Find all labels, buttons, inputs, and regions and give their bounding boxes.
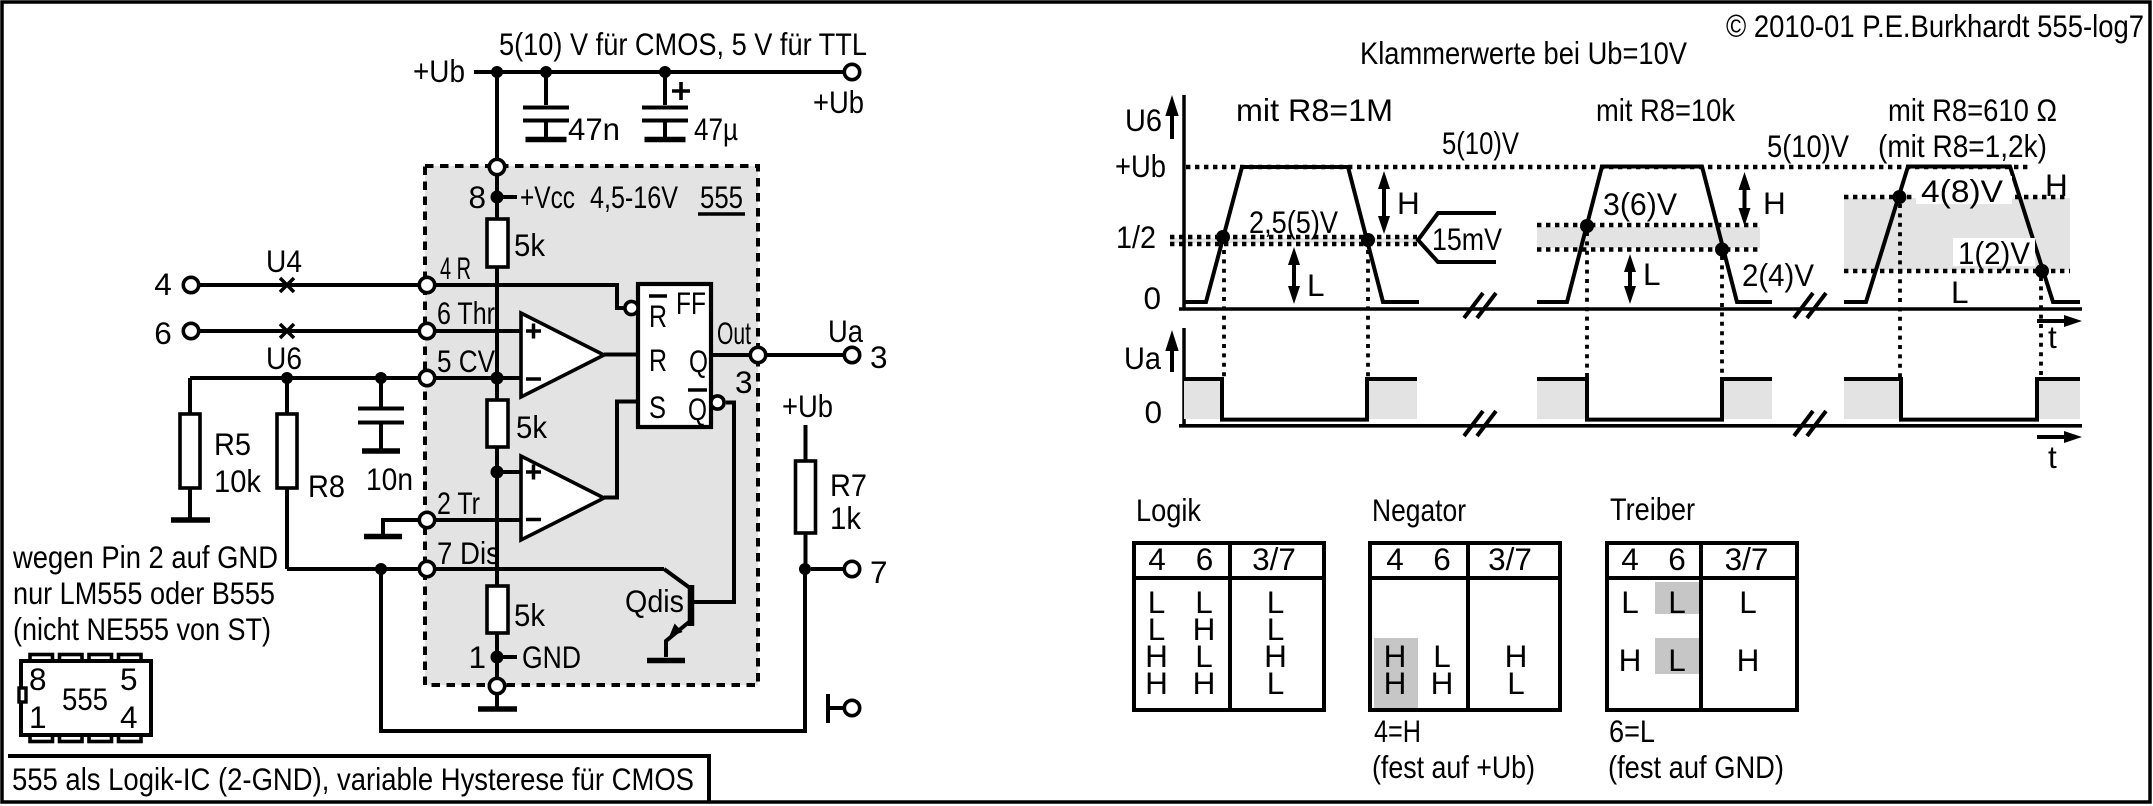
svg-text:L: L — [1307, 267, 1325, 303]
svg-text:S: S — [649, 389, 666, 425]
svg-text:6: 6 — [154, 315, 172, 351]
svg-text:3: 3 — [735, 364, 753, 400]
svg-text:1: 1 — [29, 699, 47, 735]
svg-text:47n: 47n — [568, 111, 620, 147]
svg-text:5k: 5k — [514, 227, 545, 263]
svg-text:Logik: Logik — [1136, 492, 1201, 528]
svg-text:5(10)V: 5(10)V — [1442, 125, 1519, 161]
svg-text:5k: 5k — [516, 409, 547, 445]
svg-text:3/7: 3/7 — [1488, 541, 1532, 577]
svg-text:R: R — [649, 342, 667, 378]
svg-text:15mV: 15mV — [1432, 221, 1502, 257]
svg-text:t: t — [2048, 439, 2057, 475]
svg-text:H: H — [1397, 185, 1420, 221]
svg-text:© 2010-01 P.E.Burkhardt 555-lo: © 2010-01 P.E.Burkhardt 555-log7 — [1726, 8, 2144, 44]
svg-text:U4: U4 — [266, 243, 302, 279]
svg-text:2(4)V: 2(4)V — [1742, 257, 1814, 293]
svg-text:5(10) V für CMOS, 5 V für TTL: 5(10) V für CMOS, 5 V für TTL — [499, 26, 867, 62]
svg-text:R5: R5 — [214, 426, 251, 462]
svg-text:Klammerwerte bei Ub=10V: Klammerwerte bei Ub=10V — [1360, 35, 1687, 71]
svg-text:+Ub: +Ub — [1115, 148, 1166, 184]
svg-text:H: H — [1145, 665, 1168, 701]
svg-text:4=H: 4=H — [1374, 713, 1421, 749]
svg-text:8: 8 — [29, 661, 47, 697]
svg-text:Ua: Ua — [828, 313, 863, 349]
svg-text:U6: U6 — [1125, 102, 1162, 138]
svg-text:mit R8=1M: mit R8=1M — [1236, 92, 1393, 128]
svg-text:2,5(5)V: 2,5(5)V — [1249, 204, 1338, 240]
svg-text:5 CV: 5 CV — [437, 343, 495, 379]
svg-text:1/2: 1/2 — [1116, 219, 1156, 255]
svg-text:mit R8=10k: mit R8=10k — [1596, 92, 1735, 128]
svg-text:nur LM555 oder B555: nur LM555 oder B555 — [13, 575, 275, 611]
svg-text:R: R — [649, 298, 667, 334]
svg-text:555: 555 — [700, 179, 743, 215]
svg-text:L: L — [1668, 642, 1686, 678]
svg-text:4: 4 — [1621, 541, 1639, 577]
svg-text:6: 6 — [1433, 541, 1451, 577]
svg-text:4: 4 — [120, 699, 138, 735]
svg-text:R7: R7 — [830, 467, 867, 503]
svg-text:3/7: 3/7 — [1725, 541, 1769, 577]
svg-text:10n: 10n — [366, 461, 413, 497]
svg-text:L: L — [1643, 256, 1661, 292]
svg-text:6=L: 6=L — [1609, 713, 1655, 749]
svg-text:0: 0 — [1143, 280, 1161, 316]
svg-text:GND: GND — [522, 639, 581, 675]
svg-text:L: L — [1951, 274, 1969, 310]
svg-text:(mit R8=1,2k): (mit R8=1,2k) — [1878, 128, 2047, 164]
svg-text:4 R: 4 R — [440, 250, 471, 286]
svg-text:+Ub: +Ub — [782, 388, 833, 424]
svg-text:Treiber: Treiber — [1610, 491, 1695, 527]
svg-text:H: H — [1737, 642, 1760, 678]
svg-text:3(6)V: 3(6)V — [1603, 186, 1677, 222]
svg-text:U6: U6 — [266, 340, 302, 376]
svg-text:H: H — [1431, 665, 1454, 701]
svg-text:H: H — [1384, 665, 1407, 701]
svg-text:8: 8 — [468, 179, 486, 215]
svg-text:1: 1 — [468, 639, 486, 675]
svg-text:4(8)V: 4(8)V — [1921, 173, 2003, 209]
svg-text:4,5-16V: 4,5-16V — [590, 179, 678, 215]
svg-text:5: 5 — [120, 661, 138, 697]
svg-text:H: H — [1619, 642, 1642, 678]
svg-text:6: 6 — [1196, 541, 1214, 577]
svg-text:(nicht NE555 von ST): (nicht NE555 von ST) — [13, 611, 271, 647]
svg-text:Q: Q — [688, 391, 707, 427]
svg-text:+Ub: +Ub — [813, 84, 864, 120]
svg-text:1(2)V: 1(2)V — [1958, 235, 2030, 271]
svg-text:47µ: 47µ — [694, 111, 738, 147]
svg-text:mit R8=610 Ω: mit R8=610 Ω — [1888, 92, 2057, 128]
svg-text:(fest auf +Ub): (fest auf +Ub) — [1372, 749, 1535, 785]
svg-text:Negator: Negator — [1372, 492, 1466, 528]
svg-text:4: 4 — [1148, 541, 1166, 577]
svg-text:2 Tr: 2 Tr — [437, 485, 480, 521]
svg-text:L: L — [1739, 584, 1757, 620]
svg-text:5(10)V: 5(10)V — [1767, 128, 1849, 164]
svg-text:555: 555 — [62, 681, 108, 717]
svg-text:10k: 10k — [214, 463, 261, 499]
svg-text:Ua: Ua — [1124, 340, 1161, 376]
svg-text:5k: 5k — [514, 597, 545, 633]
svg-text:L: L — [1668, 584, 1686, 620]
svg-text:555 als Logik-IC (2-GND), vari: 555 als Logik-IC (2-GND), variable Hyste… — [12, 761, 694, 797]
svg-text:H: H — [1193, 665, 1216, 701]
svg-text:Out: Out — [717, 315, 751, 351]
svg-text:1k: 1k — [830, 500, 861, 536]
svg-text:+Vcc: +Vcc — [520, 179, 575, 215]
svg-text:0: 0 — [1144, 394, 1162, 430]
svg-text:Qdis: Qdis — [625, 583, 684, 619]
svg-text:H: H — [2045, 167, 2068, 203]
svg-text:Q: Q — [689, 343, 708, 379]
svg-text:+Ub: +Ub — [413, 53, 465, 89]
svg-text:6 Thr: 6 Thr — [437, 295, 495, 331]
svg-text:L: L — [1267, 665, 1285, 701]
svg-text:3: 3 — [870, 339, 888, 375]
svg-text:(fest auf GND): (fest auf GND) — [1608, 749, 1784, 785]
svg-text:4: 4 — [154, 266, 172, 302]
svg-text:7: 7 — [870, 554, 888, 590]
svg-text:H: H — [1763, 185, 1786, 221]
svg-text:3/7: 3/7 — [1252, 541, 1296, 577]
svg-text:R8: R8 — [308, 468, 345, 504]
svg-text:4: 4 — [1386, 541, 1404, 577]
svg-text:L: L — [1621, 584, 1639, 620]
svg-text:t: t — [2048, 319, 2057, 355]
svg-text:7 Dis: 7 Dis — [437, 535, 500, 571]
svg-text:L: L — [1507, 665, 1525, 701]
svg-text:wegen Pin 2 auf GND: wegen Pin 2 auf GND — [12, 539, 278, 575]
svg-text:6: 6 — [1668, 541, 1686, 577]
svg-text:FF: FF — [676, 285, 706, 321]
